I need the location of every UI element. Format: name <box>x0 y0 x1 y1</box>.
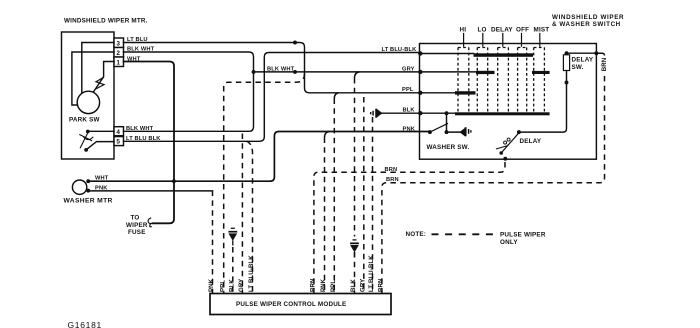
svg-text:BLK: BLK <box>350 279 357 292</box>
svg-text:PPL: PPL <box>219 280 226 292</box>
svg-text:GRY: GRY <box>238 279 245 292</box>
svg-text:WHT: WHT <box>95 176 109 182</box>
svg-text:PNK: PNK <box>403 127 416 133</box>
svg-text:G16181: G16181 <box>68 320 102 328</box>
svg-text:BLK: BLK <box>228 279 235 292</box>
svg-text:SW.: SW. <box>572 64 584 71</box>
svg-text:4: 4 <box>116 129 120 136</box>
svg-text:& WASHER SWITCH: & WASHER SWITCH <box>552 21 621 28</box>
svg-text:BLK: BLK <box>403 108 416 114</box>
svg-text:PULSE WIPER CONTROL MODULE: PULSE WIPER CONTROL MODULE <box>236 301 346 308</box>
svg-text:BRN: BRN <box>601 58 608 72</box>
svg-text:3: 3 <box>116 40 120 47</box>
svg-text:DELAY: DELAY <box>572 57 594 64</box>
svg-text:ONLY: ONLY <box>500 239 518 246</box>
svg-text:1: 1 <box>116 59 120 66</box>
svg-text:5: 5 <box>116 139 120 146</box>
svg-text:BLK WHT: BLK WHT <box>267 66 295 72</box>
svg-text:DELAY: DELAY <box>491 27 513 34</box>
svg-text:LT BLU-BLK: LT BLU-BLK <box>248 255 255 292</box>
svg-text:WHT: WHT <box>127 56 141 62</box>
svg-text:WINDSHIELD WIPER MTR.: WINDSHIELD WIPER MTR. <box>64 18 148 25</box>
svg-text:WASHER MTR: WASHER MTR <box>64 198 113 205</box>
svg-text:BRN: BRN <box>385 167 398 173</box>
svg-text:HI: HI <box>460 27 467 34</box>
svg-text:LT BLU: LT BLU <box>127 37 148 43</box>
svg-text:FUSE: FUSE <box>128 229 146 236</box>
svg-text:OFF: OFF <box>516 27 529 34</box>
svg-text:PPL: PPL <box>330 280 337 292</box>
svg-text:PPL: PPL <box>402 87 414 93</box>
svg-text:NOTE:: NOTE: <box>406 231 427 238</box>
svg-text:BRN: BRN <box>310 278 317 292</box>
svg-text:PULSE WIPER: PULSE WIPER <box>500 231 546 238</box>
svg-text:PNK: PNK <box>320 278 327 292</box>
svg-text:PARK SW: PARK SW <box>69 117 100 124</box>
svg-text:BLK WHT: BLK WHT <box>126 126 154 132</box>
svg-text:MIST: MIST <box>534 27 550 34</box>
svg-text:BLK WHT: BLK WHT <box>127 47 155 53</box>
svg-text:TO: TO <box>131 215 140 222</box>
svg-text:DELAY: DELAY <box>520 138 542 145</box>
svg-text:LO: LO <box>478 27 487 34</box>
svg-text:GRY: GRY <box>402 66 415 72</box>
svg-text:BRN: BRN <box>386 177 399 183</box>
svg-text:2: 2 <box>116 50 120 57</box>
svg-text:PNK: PNK <box>208 278 215 292</box>
svg-text:PNK: PNK <box>95 186 108 192</box>
svg-text:BRN: BRN <box>378 278 385 292</box>
svg-text:GRY: GRY <box>359 279 366 292</box>
svg-text:LT BLU-BLK: LT BLU-BLK <box>382 47 418 53</box>
svg-text:WASHER SW.: WASHER SW. <box>427 144 470 151</box>
svg-text:LT BLU BLK: LT BLU BLK <box>126 136 161 142</box>
svg-text:WINDSHIELD WIPER: WINDSHIELD WIPER <box>552 14 624 21</box>
svg-text:LT BLU-BLK: LT BLU-BLK <box>368 255 375 292</box>
